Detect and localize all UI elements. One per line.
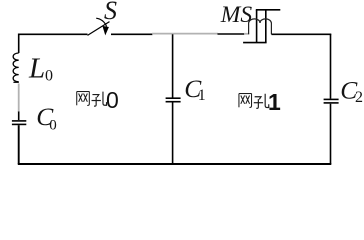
wire grey segment mesh0 top [152,33,218,35]
svg-text:MS: MS [220,2,253,28]
capacitor C2 [324,99,339,103]
capacitor C0 [12,121,26,125]
wire grey left vertical [18,84,20,113]
wire MS to right corner [271,33,331,35]
wire C2 branch bottom [330,104,332,164]
MEMS switch MS bottom bar [243,42,267,44]
wire to C0 [18,112,20,121]
node mesh label 网孔1 [239,94,269,109]
MEMS switch MS left bar [256,10,258,43]
wire switch to node [111,33,153,35]
svg-text:2: 2 [355,89,363,106]
svg-text:S: S [104,0,117,25]
wire bottom rail [18,163,332,165]
wire C2 branch top [330,34,332,98]
switch S arrowhead [102,26,109,36]
char wang3 net [239,94,252,108]
svg-text:L: L [28,53,45,85]
svg-text:0: 0 [49,117,57,133]
svg-text:1: 1 [198,87,206,104]
inductor L0 coil [13,53,19,82]
wire node to MS [218,33,245,35]
svg-text:0: 0 [106,87,119,113]
char wang3 net [77,92,90,106]
wire grey stub before MS [244,33,249,35]
inductor L0 bottom stub [13,81,18,83]
char kong3 hole [92,92,107,107]
svg-text:0: 0 [45,68,53,85]
MEMS switch MS top bar [256,9,280,11]
capacitor C1 [166,98,181,102]
MEMS switch MS right bar [265,10,267,43]
svg-text:1: 1 [268,89,281,115]
switch S blade [88,22,110,36]
wire C1 branch top [172,34,174,97]
wire top-left segment [19,34,88,53]
char kong3 hole [254,94,269,109]
wire C0 to bottom [18,125,20,164]
node mesh label 网孔0 [77,92,107,107]
wire C1 branch bottom [172,103,174,165]
MEMS switch MS contact wire with humps [249,19,261,34]
switch S motion arc [96,18,106,26]
